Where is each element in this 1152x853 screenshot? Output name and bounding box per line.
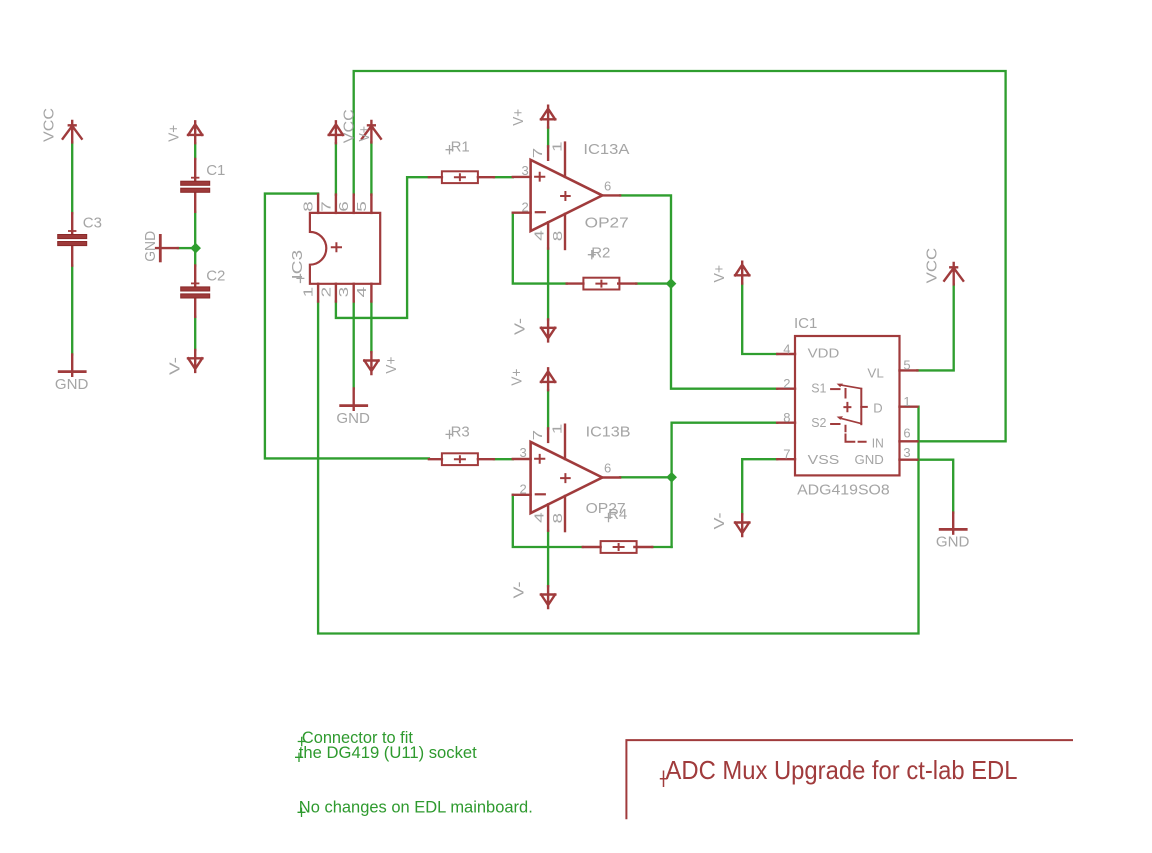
svg-text:7: 7	[783, 447, 790, 462]
svg-text:V+: V+	[510, 109, 527, 126]
svg-text:D: D	[873, 401, 882, 416]
svg-text:V-: V-	[511, 582, 528, 599]
svg-text:4: 4	[354, 287, 369, 298]
svg-text:GND: GND	[55, 376, 89, 393]
svg-text:OP27: OP27	[586, 500, 626, 517]
svg-text:V-: V-	[512, 318, 529, 335]
svg-text:S2: S2	[811, 415, 826, 430]
svg-text:IC13A: IC13A	[583, 141, 629, 158]
svg-text:7: 7	[318, 201, 333, 212]
svg-text:IN: IN	[872, 436, 884, 451]
svg-text:VL: VL	[867, 365, 883, 380]
svg-text:6: 6	[336, 201, 351, 212]
svg-text:IC13B: IC13B	[586, 423, 631, 440]
svg-text:6: 6	[604, 178, 611, 193]
svg-text:GND: GND	[142, 231, 159, 262]
svg-text:IC3: IC3	[289, 250, 306, 280]
svg-text:2: 2	[318, 287, 333, 298]
svg-text:3: 3	[336, 287, 351, 298]
svg-text:VCC: VCC	[40, 108, 57, 142]
svg-text:2: 2	[783, 376, 790, 391]
svg-text:GND: GND	[855, 452, 884, 467]
svg-text:S1: S1	[811, 381, 826, 396]
svg-text:1: 1	[301, 287, 316, 298]
svg-text:R2: R2	[591, 244, 610, 261]
svg-text:3: 3	[522, 163, 529, 178]
svg-text:5: 5	[903, 358, 910, 373]
svg-text:V+: V+	[711, 265, 728, 283]
svg-text:3: 3	[903, 445, 910, 460]
svg-text:7: 7	[530, 148, 545, 159]
svg-text:OP27: OP27	[585, 215, 629, 232]
svg-text:7: 7	[530, 430, 545, 441]
svg-text:3: 3	[520, 445, 527, 460]
svg-text:IC1: IC1	[794, 315, 817, 332]
svg-text:5: 5	[354, 201, 369, 212]
svg-text:V+: V+	[165, 125, 182, 142]
svg-text:VSS: VSS	[808, 452, 840, 467]
svg-text:R1: R1	[451, 139, 470, 156]
svg-text:6: 6	[604, 461, 611, 476]
svg-text:VDD: VDD	[808, 346, 840, 361]
svg-text:6: 6	[903, 426, 910, 441]
svg-text:GND: GND	[936, 534, 970, 551]
svg-text:the DG419 (U11) socket: the DG419 (U11) socket	[299, 744, 477, 762]
svg-text:4: 4	[532, 512, 547, 523]
svg-text:ADG419SO8: ADG419SO8	[797, 482, 890, 499]
svg-text:1: 1	[550, 142, 565, 153]
svg-text:VCC: VCC	[924, 248, 941, 284]
svg-text:4: 4	[783, 342, 790, 357]
svg-text:1: 1	[903, 394, 910, 409]
svg-text:8: 8	[783, 410, 790, 425]
svg-text:V+: V+	[383, 356, 400, 373]
svg-text:C2: C2	[206, 268, 225, 285]
svg-text:V-: V-	[711, 513, 728, 530]
svg-text:V+: V+	[356, 126, 373, 142]
svg-text:4: 4	[532, 230, 547, 241]
svg-text:GND: GND	[336, 410, 370, 427]
svg-text:8: 8	[301, 201, 316, 212]
svg-text:8: 8	[550, 231, 565, 242]
svg-text:2: 2	[520, 482, 527, 497]
svg-text:V-: V-	[166, 357, 183, 375]
svg-text:1: 1	[550, 424, 565, 435]
svg-text:V+: V+	[509, 368, 526, 385]
svg-text:2: 2	[522, 200, 529, 215]
svg-text:R3: R3	[451, 423, 470, 440]
svg-text:ADC Mux Upgrade for ct-lab EDL: ADC Mux Upgrade for ct-lab EDL	[666, 755, 1018, 785]
svg-text:No changes on EDL mainboard.: No changes on EDL mainboard.	[299, 798, 533, 816]
svg-text:C3: C3	[83, 214, 102, 231]
svg-text:C1: C1	[206, 162, 225, 179]
svg-text:8: 8	[550, 513, 565, 524]
